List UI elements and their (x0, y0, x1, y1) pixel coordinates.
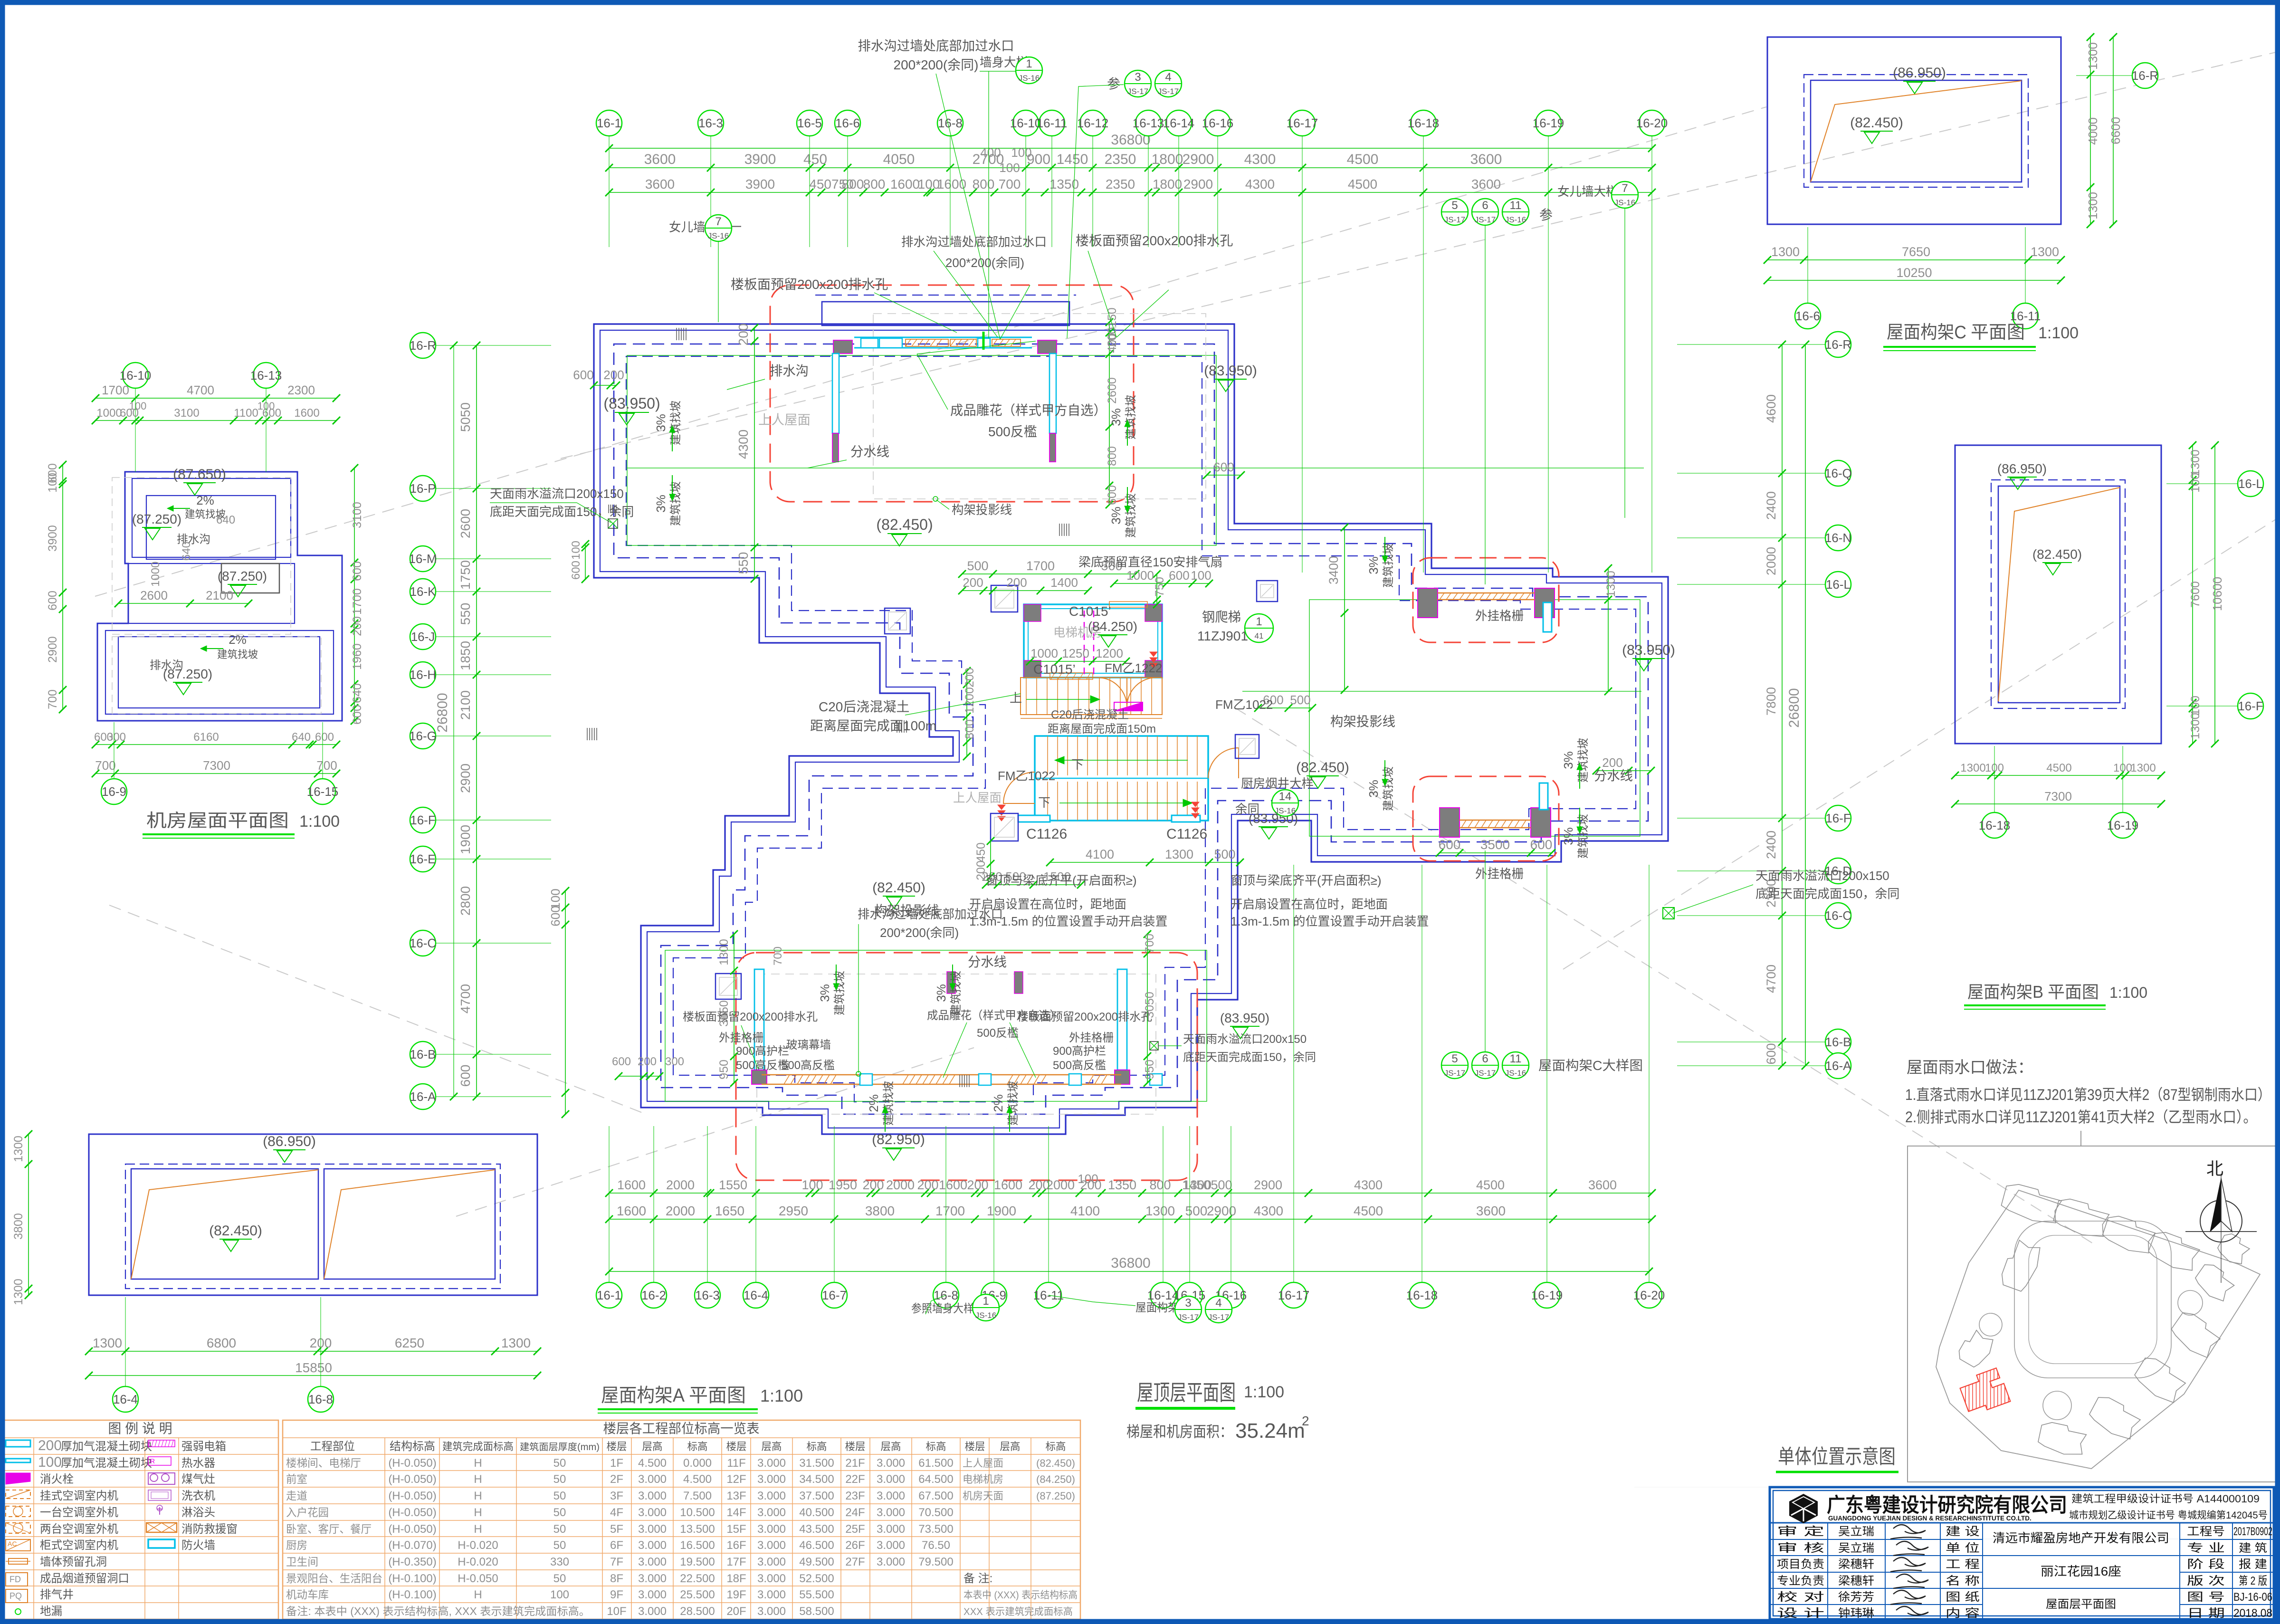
svg-text:机房屋面平面图: 机房屋面平面图 (146, 811, 289, 831)
svg-text:本表中 (XXX) 表示结构标高: 本表中 (XXX) 表示结构标高 (964, 1590, 1078, 1601)
svg-text:16-B: 16-B (1825, 1035, 1851, 1049)
svg-text:H: H (474, 1457, 482, 1470)
svg-text:建筑工程甲级设计证书号 A144000109: 建筑工程甲级设计证书号 A144000109 (2071, 1493, 2260, 1505)
svg-text:地漏: 地漏 (40, 1605, 62, 1618)
svg-text:200: 200 (38, 1438, 62, 1453)
svg-text:700: 700 (999, 177, 1021, 191)
svg-text:1600: 1600 (937, 177, 966, 191)
svg-text:清远市耀盈房地产开发有限公司: 清远市耀盈房地产开发有限公司 (1993, 1531, 2169, 1545)
svg-text:2900: 2900 (458, 764, 473, 793)
svg-text:200: 200 (603, 368, 624, 382)
svg-text:(82.950): (82.950) (872, 1132, 925, 1147)
svg-text:专 业: 专 业 (2187, 1542, 2225, 1555)
svg-text:4F: 4F (610, 1506, 623, 1519)
svg-text:(87.650): (87.650) (173, 467, 226, 482)
svg-text:C1015’: C1015’ (1033, 662, 1076, 677)
svg-text:16-13: 16-13 (250, 368, 282, 382)
svg-text:楼层: 楼层 (965, 1441, 985, 1452)
svg-text:600: 600 (315, 731, 334, 744)
svg-text:5: 5 (1451, 199, 1458, 212)
svg-text:100: 100 (1011, 145, 1031, 160)
svg-text:底距天面完成面150，余同: 底距天面完成面150，余同 (1755, 887, 1899, 901)
svg-text:建筑面层厚度(mm): 建筑面层厚度(mm) (520, 1442, 600, 1452)
svg-text:1300: 1300 (2086, 192, 2100, 220)
svg-text:16-19: 16-19 (1531, 1288, 1563, 1302)
svg-text:1:100: 1:100 (2109, 984, 2147, 1001)
svg-text:2100: 2100 (458, 690, 473, 720)
svg-text:(82.450): (82.450) (872, 880, 925, 896)
svg-text:外挂格栅: 外挂格栅 (719, 1032, 763, 1044)
svg-text:2100: 2100 (206, 588, 233, 602)
svg-text:25.500: 25.500 (680, 1588, 715, 1601)
svg-text:50: 50 (553, 1523, 566, 1536)
svg-text:1:100: 1:100 (1244, 1383, 1284, 1401)
svg-text:标高: 标高 (1046, 1441, 1066, 1452)
svg-text:楼板面预留200x200排水孔: 楼板面预留200x200排水孔 (1076, 233, 1233, 248)
svg-text:16-4: 16-4 (113, 1392, 138, 1406)
svg-text:JS-17: JS-17 (1444, 215, 1465, 224)
svg-text:FM乙1022: FM乙1022 (1215, 697, 1273, 712)
svg-text:标高: 标高 (687, 1441, 708, 1452)
svg-text:11ZJ901: 11ZJ901 (1197, 629, 1248, 643)
svg-text:设 计: 设 计 (1777, 1607, 1824, 1620)
svg-text:(H-0.350): (H-0.350) (388, 1556, 436, 1568)
svg-text:FD: FD (10, 1575, 21, 1584)
svg-text:2800: 2800 (458, 886, 473, 916)
svg-text:4000: 4000 (2086, 117, 2100, 145)
svg-text:屋面构架C: 屋面构架C (1887, 323, 1966, 343)
svg-text:16-F: 16-F (1825, 811, 1851, 825)
svg-text:500反檻: 500反檻 (988, 424, 1037, 439)
svg-text:500: 500 (1185, 1204, 1208, 1218)
svg-text:1950: 1950 (829, 1178, 857, 1192)
svg-text:丽江花园16座: 丽江花园16座 (2041, 1564, 2121, 1578)
svg-text:4700: 4700 (458, 984, 473, 1013)
svg-text:16-L: 16-L (2238, 477, 2263, 491)
svg-text:梁底预留直径150安排气扇: 梁底预留直径150安排气扇 (1078, 555, 1222, 569)
svg-text:3%: 3% (1109, 506, 1123, 525)
svg-text:图 纸: 图 纸 (1946, 1591, 1980, 1604)
svg-text:JS-16: JS-16 (708, 231, 729, 240)
svg-text:建筑找坡: 建筑找坡 (1125, 493, 1137, 538)
svg-text:审 核: 审 核 (1777, 1542, 1824, 1555)
svg-text:3%: 3% (1561, 751, 1575, 769)
svg-text:建筑完成面标高: 建筑完成面标高 (442, 1441, 514, 1452)
svg-text:图 号: 图 号 (2187, 1591, 2225, 1604)
svg-text:(83.950): (83.950) (1622, 642, 1675, 658)
svg-text:16-1: 16-1 (597, 1288, 621, 1302)
svg-text:柜式空调室内机: 柜式空调室内机 (40, 1539, 118, 1552)
svg-text:梯屋和机房面积：: 梯屋和机房面积： (1126, 1423, 1233, 1440)
svg-text:GUANGDONG YUEJIAN DESIGN & RES: GUANGDONG YUEJIAN DESIGN & RESEARCHINSTI… (1828, 1515, 2032, 1522)
svg-text:单 位: 单 位 (1946, 1542, 1980, 1555)
svg-text:4700: 4700 (1764, 965, 1778, 993)
svg-text:两台空调室外机: 两台空调室外机 (40, 1523, 118, 1536)
svg-text:平面图: 平面图 (2048, 982, 2099, 1002)
svg-text:(82.450): (82.450) (876, 516, 933, 533)
svg-text:16-A: 16-A (1825, 1059, 1852, 1073)
svg-text:阶 段: 阶 段 (2187, 1558, 2225, 1571)
svg-text:2350: 2350 (1106, 177, 1135, 191)
svg-text:15F: 15F (726, 1523, 746, 1536)
svg-text:7: 7 (715, 215, 721, 228)
svg-text:2900: 2900 (1183, 177, 1213, 191)
svg-text:4300: 4300 (736, 430, 751, 459)
svg-text:13F: 13F (726, 1490, 746, 1502)
svg-text:(82.450): (82.450) (1036, 1457, 1075, 1469)
svg-text:JS-16: JS-16 (975, 1311, 996, 1320)
svg-text:16-18: 16-18 (1979, 818, 2011, 832)
svg-text:16-M: 16-M (409, 552, 437, 566)
svg-text:建筑找坡: 建筑找坡 (217, 649, 258, 660)
svg-text:1300: 1300 (1771, 245, 1800, 259)
svg-text:16-P: 16-P (410, 481, 436, 496)
svg-text:5: 5 (1451, 1052, 1458, 1065)
svg-text:70.500: 70.500 (918, 1506, 953, 1519)
svg-text:9F: 9F (610, 1588, 623, 1601)
svg-text:工程部位: 工程部位 (310, 1440, 355, 1453)
svg-text:16-Q: 16-Q (1824, 466, 1852, 480)
svg-text:1300: 1300 (93, 1336, 122, 1350)
svg-text:1350: 1350 (1049, 177, 1079, 191)
svg-text:41: 41 (1255, 631, 1264, 640)
svg-text:3%: 3% (1366, 780, 1381, 798)
svg-text:800: 800 (973, 177, 995, 191)
svg-text:层高: 层高 (762, 1441, 782, 1452)
svg-text:(82.450): (82.450) (1850, 115, 1903, 131)
svg-text:7.500: 7.500 (683, 1490, 712, 1502)
svg-text:16-5: 16-5 (797, 116, 822, 130)
svg-text:参: 参 (1539, 208, 1553, 222)
svg-text:100: 100 (129, 400, 147, 412)
svg-text:200: 200 (862, 1178, 884, 1192)
svg-text:吴立瑞: 吴立瑞 (1838, 1525, 1874, 1538)
svg-text:(87.250): (87.250) (1036, 1490, 1075, 1502)
svg-text:500: 500 (967, 559, 988, 573)
svg-text:50: 50 (553, 1473, 566, 1486)
svg-text:单体位置示意图: 单体位置示意图 (1778, 1445, 1896, 1468)
svg-text:4500: 4500 (1354, 1204, 1383, 1218)
svg-text:100: 100 (38, 1454, 62, 1470)
svg-text:5050: 5050 (458, 402, 473, 432)
svg-text:挂式空调室内机: 挂式空调室内机 (40, 1490, 118, 1502)
svg-text:500高反檻: 500高反檻 (1053, 1059, 1106, 1072)
svg-text:16-16: 16-16 (1202, 116, 1234, 130)
svg-text:JS-17: JS-17 (1127, 87, 1148, 96)
svg-text:16-F: 16-F (2238, 699, 2263, 713)
svg-text:600: 600 (46, 591, 59, 611)
svg-text:3%: 3% (818, 984, 832, 1002)
svg-text:(82.450): (82.450) (209, 1223, 262, 1239)
svg-text:3500: 3500 (1480, 837, 1510, 852)
svg-text:H-0.020: H-0.020 (458, 1539, 498, 1552)
svg-text:49.500: 49.500 (799, 1556, 834, 1568)
svg-text:1300: 1300 (1165, 847, 1193, 861)
svg-text:16-3: 16-3 (698, 116, 723, 130)
svg-text:2.侧排式雨水口详见11ZJ201第41页大样2（乙型雨水口: 2.侧排式雨水口详见11ZJ201第41页大样2（乙型雨水口）。 (1905, 1108, 2257, 1126)
svg-text:底距天面完成面150，余同: 底距天面完成面150，余同 (1183, 1051, 1316, 1064)
svg-text:3400: 3400 (1326, 556, 1341, 584)
svg-text:4600: 4600 (1764, 394, 1778, 423)
svg-text:16-12: 16-12 (1077, 116, 1109, 130)
svg-text:700: 700 (95, 758, 115, 773)
svg-text:楼板面预留200x200排水孔: 楼板面预留200x200排水孔 (731, 277, 888, 292)
svg-text:35.24m: 35.24m (1235, 1419, 1305, 1442)
svg-text:450: 450 (974, 842, 988, 862)
svg-text:H-0.050: H-0.050 (458, 1572, 498, 1585)
svg-text:审 定: 审 定 (1777, 1525, 1824, 1538)
svg-text:JS-17: JS-17 (1208, 1313, 1229, 1322)
svg-text:0.000: 0.000 (683, 1457, 712, 1470)
svg-text:校 对: 校 对 (1777, 1591, 1824, 1604)
svg-text:1300: 1300 (717, 939, 731, 965)
svg-text:550: 550 (458, 603, 473, 625)
svg-text:1000: 1000 (1126, 568, 1154, 583)
svg-text:天面雨水溢流口200x150: 天面雨水溢流口200x150 (490, 487, 624, 501)
svg-text:640: 640 (351, 683, 364, 703)
svg-text:3%: 3% (934, 984, 948, 1002)
svg-text:800: 800 (863, 177, 886, 191)
svg-text:26800: 26800 (435, 693, 450, 732)
svg-text:排水沟: 排水沟 (770, 363, 809, 378)
svg-text:1:100: 1:100 (299, 812, 340, 831)
svg-text:16-19: 16-19 (2107, 818, 2139, 832)
svg-text:(83.950): (83.950) (1204, 363, 1257, 379)
svg-text:专业负责: 专业负责 (1777, 1575, 1824, 1587)
svg-text:层高: 层高 (642, 1441, 663, 1452)
svg-text:7300: 7300 (203, 758, 230, 773)
svg-text:6F: 6F (610, 1539, 623, 1552)
svg-text:距离屋面完成面150m: 距离屋面完成面150m (1048, 723, 1156, 736)
svg-text:3.000: 3.000 (757, 1588, 786, 1601)
svg-text:建筑找坡: 建筑找坡 (669, 401, 682, 445)
svg-text:FM乙1222: FM乙1222 (1105, 661, 1162, 675)
svg-text:640: 640 (216, 514, 235, 526)
svg-text:JS-17: JS-17 (1475, 215, 1496, 224)
svg-text:钟玮琳: 钟玮琳 (1838, 1607, 1874, 1620)
svg-text:报 建: 报 建 (2239, 1558, 2267, 1571)
svg-text:11F: 11F (727, 1457, 746, 1470)
svg-text:结构标高: 结构标高 (390, 1440, 435, 1453)
svg-text:12F: 12F (726, 1473, 746, 1486)
svg-text:3100: 3100 (351, 502, 364, 528)
svg-text:1700: 1700 (1026, 559, 1055, 573)
svg-text:一台空调室外机: 一台空调室外机 (40, 1506, 118, 1519)
svg-text:3.000: 3.000 (757, 1572, 786, 1585)
svg-text:3.000: 3.000 (638, 1490, 667, 1502)
svg-text:2%: 2% (196, 493, 214, 507)
svg-text:(86.950): (86.950) (263, 1134, 316, 1149)
svg-text:2300: 2300 (287, 383, 315, 397)
svg-text:16-F: 16-F (410, 813, 435, 827)
svg-text:JS-17: JS-17 (1475, 1069, 1496, 1078)
svg-text:14: 14 (1279, 790, 1292, 803)
svg-text:厚加气混凝土砌块: 厚加气混凝土砌块 (61, 1457, 152, 1470)
svg-text:排气井: 排气井 (40, 1588, 74, 1601)
svg-text:3.000: 3.000 (638, 1506, 667, 1519)
svg-text:(83.950): (83.950) (603, 395, 660, 412)
svg-text:6: 6 (1482, 199, 1488, 212)
svg-text:500: 500 (1211, 1178, 1232, 1192)
svg-text:16-1: 16-1 (597, 116, 621, 130)
svg-text:C20后浇混凝土: C20后浇混凝土 (819, 699, 909, 714)
svg-text:1700: 1700 (935, 1204, 965, 1218)
svg-text:17F: 17F (726, 1556, 746, 1568)
svg-text:(87.250): (87.250) (132, 512, 181, 526)
svg-text:2900: 2900 (1183, 152, 1214, 167)
svg-text:建筑找坡: 建筑找坡 (1577, 738, 1590, 783)
svg-text:建筑找坡: 建筑找坡 (1382, 766, 1395, 811)
svg-text:徐芳芳: 徐芳芳 (1838, 1591, 1874, 1604)
svg-text:3.000: 3.000 (757, 1490, 786, 1502)
svg-text:2600: 2600 (140, 588, 168, 602)
svg-text:600: 600 (1169, 568, 1189, 583)
svg-text:61.500: 61.500 (918, 1457, 953, 1470)
svg-text:3.000: 3.000 (757, 1473, 786, 1486)
svg-text:3600: 3600 (1471, 177, 1501, 191)
svg-text:1960: 1960 (351, 643, 364, 670)
svg-text:建筑找坡: 建筑找坡 (882, 1081, 895, 1126)
svg-text:3600: 3600 (645, 177, 675, 191)
svg-text:窗顶与梁底齐平(开启面积≥): 窗顶与梁底齐平(开启面积≥) (1231, 873, 1382, 888)
svg-text:16-8: 16-8 (938, 116, 963, 130)
svg-text:24F: 24F (845, 1506, 865, 1519)
svg-text:(82.450): (82.450) (1296, 760, 1349, 775)
svg-text:3: 3 (1185, 1297, 1191, 1309)
svg-text:34.500: 34.500 (799, 1473, 834, 1486)
svg-text:3.000: 3.000 (877, 1506, 905, 1519)
svg-text:3.000: 3.000 (638, 1588, 667, 1601)
svg-text:16-6: 16-6 (835, 116, 860, 130)
svg-text:500: 500 (1214, 847, 1235, 861)
svg-text:1300: 1300 (12, 1279, 25, 1305)
svg-text:上人屋面: 上人屋面 (758, 412, 811, 427)
svg-text:7650: 7650 (1902, 245, 1930, 259)
svg-text:消火栓: 消火栓 (40, 1473, 74, 1486)
svg-text:8F: 8F (610, 1572, 623, 1585)
svg-text:1450: 1450 (1057, 152, 1088, 167)
svg-text:3.000: 3.000 (757, 1605, 786, 1618)
svg-text:洗衣机: 洗衣机 (181, 1490, 215, 1502)
svg-text:3.000: 3.000 (757, 1506, 786, 1519)
svg-text:4500: 4500 (2046, 762, 2071, 774)
svg-text:16-R: 16-R (2132, 68, 2158, 83)
svg-text:100: 100 (570, 541, 582, 560)
svg-text:200: 200 (1006, 575, 1027, 590)
svg-text:4100: 4100 (1086, 847, 1114, 861)
svg-text:6250: 6250 (395, 1336, 424, 1350)
svg-text:4050: 4050 (883, 152, 915, 167)
svg-text:4: 4 (1165, 71, 1171, 84)
svg-text:排水沟过墙处底部加过水口: 排水沟过墙处底部加过水口 (901, 235, 1047, 249)
svg-text:卫生间: 卫生间 (286, 1556, 318, 1568)
svg-text:参照墙身大样: 参照墙身大样 (911, 1302, 974, 1315)
svg-text:1600: 1600 (994, 1178, 1022, 1192)
svg-text:16-L: 16-L (1826, 577, 1851, 592)
svg-text:22.500: 22.500 (680, 1572, 715, 1585)
svg-text:工 程: 工 程 (1946, 1558, 1980, 1571)
svg-text:上: 上 (1010, 691, 1022, 705)
svg-text:1300: 1300 (1145, 1204, 1175, 1218)
svg-text:1300: 1300 (2031, 245, 2059, 259)
svg-text:(H-0.050): (H-0.050) (388, 1523, 436, 1536)
svg-text:10600: 10600 (2210, 577, 2224, 611)
svg-text:1600: 1600 (294, 407, 319, 420)
svg-text:36800: 36800 (1111, 1255, 1150, 1271)
svg-text:层高: 层高 (1000, 1441, 1021, 1452)
svg-text:7: 7 (1622, 182, 1628, 195)
svg-text:3: 3 (1135, 71, 1141, 84)
svg-text:2: 2 (1302, 1414, 1309, 1428)
svg-text:楼层: 楼层 (726, 1441, 747, 1452)
svg-text:1200: 1200 (963, 687, 976, 714)
svg-text:下: 下 (1038, 795, 1050, 810)
svg-text:FM乙1022: FM乙1022 (998, 769, 1055, 783)
svg-text:4.500: 4.500 (683, 1473, 712, 1486)
svg-text:52.500: 52.500 (799, 1572, 834, 1585)
svg-text:67.500: 67.500 (918, 1490, 953, 1502)
svg-text:100: 100 (2189, 473, 2202, 493)
svg-text:2000: 2000 (666, 1204, 695, 1218)
svg-text:1: 1 (1256, 615, 1262, 628)
svg-text:H: H (474, 1506, 482, 1519)
svg-text:走道: 走道 (286, 1490, 307, 1502)
svg-text:800: 800 (963, 719, 976, 739)
svg-text:200: 200 (917, 1178, 938, 1192)
svg-text:1800: 1800 (1153, 177, 1182, 191)
svg-text:3.000: 3.000 (638, 1523, 667, 1536)
svg-text:100: 100 (1078, 1172, 1098, 1186)
svg-text:200: 200 (1602, 755, 1622, 770)
svg-text:16-R: 16-R (1825, 337, 1851, 352)
svg-text:屋面构架B: 屋面构架B (1967, 982, 2043, 1002)
svg-text:H: H (474, 1490, 482, 1502)
svg-text:16-20: 16-20 (1636, 116, 1668, 130)
svg-text:建筑找坡: 建筑找坡 (1007, 1081, 1020, 1126)
svg-text:16-2: 16-2 (641, 1288, 666, 1302)
svg-text:2%: 2% (229, 632, 247, 647)
svg-text:(86.950): (86.950) (1997, 461, 2047, 476)
svg-text:950: 950 (717, 1060, 731, 1079)
svg-text:1800: 1800 (1152, 152, 1183, 167)
svg-text:16-3: 16-3 (695, 1288, 720, 1302)
svg-text:H: H (474, 1588, 482, 1601)
svg-text:500高反檻: 500高反檻 (782, 1059, 835, 1072)
svg-text:强弱电箱: 强弱电箱 (181, 1440, 226, 1453)
svg-text:200*200(余同): 200*200(余同) (945, 256, 1024, 270)
svg-text:79.500: 79.500 (918, 1556, 953, 1568)
svg-text:建筑找坡: 建筑找坡 (669, 481, 682, 526)
svg-text:(H-0.070): (H-0.070) (388, 1539, 436, 1552)
svg-text:16-10: 16-10 (120, 368, 152, 382)
svg-text:1600: 1600 (617, 1204, 646, 1218)
svg-text:3600: 3600 (644, 152, 676, 167)
svg-text:楼层: 楼层 (845, 1441, 866, 1452)
svg-text:C1126: C1126 (1166, 826, 1207, 842)
svg-text:(H-0.050): (H-0.050) (388, 1490, 436, 1502)
svg-text:2400: 2400 (1764, 831, 1778, 859)
svg-text:16-14: 16-14 (1163, 116, 1195, 130)
svg-text:100: 100 (550, 1588, 569, 1601)
svg-text:H: H (474, 1523, 482, 1536)
svg-text:600: 600 (458, 1065, 473, 1087)
svg-text:厨房烟井大样: 厨房烟井大样 (1241, 776, 1314, 791)
svg-text:C20后浇混凝土: C20后浇混凝土 (1051, 708, 1129, 721)
svg-text:成品烟道预留洞口: 成品烟道预留洞口 (40, 1572, 129, 1585)
svg-text:3.000: 3.000 (877, 1473, 905, 1486)
svg-text:3.000: 3.000 (638, 1556, 667, 1568)
svg-text:2%: 2% (867, 1094, 881, 1112)
